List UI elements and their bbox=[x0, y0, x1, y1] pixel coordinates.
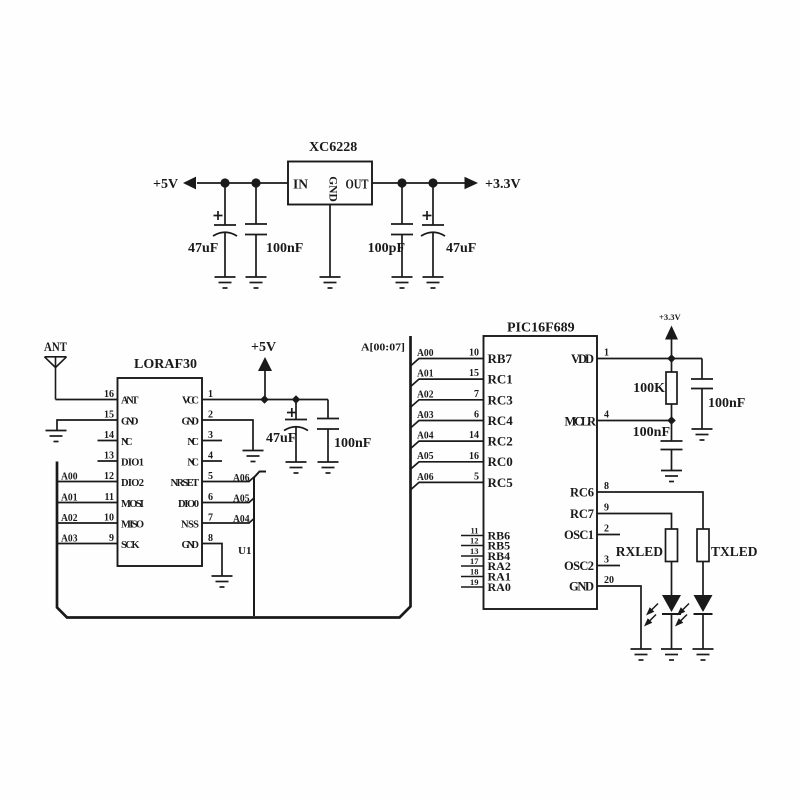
svg-text:TXLED: TXLED bbox=[711, 544, 758, 559]
PIC left pin numbers bbox=[469, 348, 479, 483]
svg-text:2: 2 bbox=[208, 410, 213, 421]
svg-text:15: 15 bbox=[104, 410, 114, 421]
svg-text:100K: 100K bbox=[633, 381, 665, 396]
svg-text:A01: A01 bbox=[417, 369, 434, 380]
wire pin8 GND to ground bbox=[202, 544, 222, 576]
svg-text:100nF: 100nF bbox=[633, 425, 670, 440]
svg-text:OUT: OUT bbox=[346, 177, 369, 192]
wire +5V rail left bbox=[197, 182, 288, 184]
node junction +5V bbox=[260, 395, 269, 404]
LORA right pin numbers bbox=[208, 389, 213, 544]
capacitor C8 100nF mclr bbox=[661, 421, 683, 471]
wire A02 to pin10 bbox=[57, 522, 118, 524]
svg-text:GND: GND bbox=[327, 176, 339, 202]
svg-text:9: 9 bbox=[109, 533, 114, 544]
capacitor C3 100pF bbox=[391, 183, 413, 277]
svg-text:A00: A00 bbox=[61, 472, 78, 483]
ground under pin8 bbox=[212, 576, 233, 587]
wire +3.3V rail right bbox=[372, 182, 465, 184]
wire antenna to pin16 bbox=[56, 399, 118, 401]
wire R3 to LED D2 bbox=[702, 562, 704, 596]
svg-text:RC1: RC1 bbox=[488, 372, 513, 387]
capacitor C1 47uF polarized bbox=[213, 183, 237, 277]
svg-text:+5V: +5V bbox=[153, 177, 178, 192]
wire A03 to RC4 bbox=[411, 421, 484, 429]
svg-text:A03: A03 bbox=[417, 410, 434, 421]
svg-text:ANT: ANT bbox=[44, 339, 67, 354]
svg-text:6: 6 bbox=[474, 410, 479, 421]
svg-text:4: 4 bbox=[604, 410, 609, 421]
wire VDD rail bbox=[597, 358, 702, 360]
wire pin15 GND to ground bbox=[57, 420, 118, 430]
ground under C6 bbox=[318, 462, 339, 473]
svg-text:MCLR: MCLR bbox=[565, 415, 597, 429]
wire GND pin20 to ground bbox=[597, 586, 641, 649]
svg-text:RC5: RC5 bbox=[488, 475, 514, 490]
svg-text:VDD: VDD bbox=[571, 352, 594, 366]
wire RB5 stub bbox=[461, 545, 484, 547]
svg-text:100pF: 100pF bbox=[368, 241, 405, 256]
svg-text:100nF: 100nF bbox=[266, 241, 303, 256]
svg-text:12: 12 bbox=[104, 471, 114, 482]
wire A01 to RC1 bbox=[411, 379, 484, 387]
node junction C3 bbox=[397, 178, 406, 187]
LED D2 arrows bbox=[677, 604, 690, 626]
node junction C1 bbox=[220, 178, 229, 187]
svg-text:U1: U1 bbox=[238, 545, 251, 557]
svg-text:RC6: RC6 bbox=[570, 486, 594, 500]
svg-text:GND: GND bbox=[121, 416, 139, 427]
PIC right pin names bbox=[564, 352, 597, 594]
svg-text:8: 8 bbox=[604, 481, 609, 492]
svg-text:A01: A01 bbox=[61, 493, 78, 504]
ground under pin2 bbox=[243, 451, 264, 462]
wire A00 to RB7 bbox=[411, 359, 484, 367]
svg-text:15: 15 bbox=[469, 368, 479, 379]
+5V arrow left bbox=[183, 177, 196, 190]
capacitor C7 100nF vdd bbox=[691, 359, 713, 429]
svg-text:47uF: 47uF bbox=[188, 241, 218, 256]
svg-text:2: 2 bbox=[604, 524, 609, 535]
svg-text:A05: A05 bbox=[417, 451, 434, 462]
LORA left pin names bbox=[121, 396, 144, 552]
svg-text:LORAF30: LORAF30 bbox=[134, 357, 197, 372]
node junction C5 bbox=[292, 395, 301, 404]
svg-text:A06: A06 bbox=[233, 473, 250, 484]
wire A03 to pin9 bbox=[57, 543, 118, 545]
wire MCLR bbox=[597, 420, 672, 422]
wire pin4 NC stub bbox=[202, 460, 222, 462]
svg-text:A02: A02 bbox=[61, 513, 78, 524]
wire pin14 NC stub bbox=[98, 440, 118, 442]
LED D1 rx bbox=[662, 595, 681, 649]
wire pin2 GND to ground bbox=[202, 420, 253, 450]
svg-text:XC6228: XC6228 bbox=[309, 140, 357, 155]
+3.3V arrow right bbox=[465, 177, 479, 190]
wire pin5 NRSET to A06 net bbox=[202, 477, 254, 482]
svg-text:14: 14 bbox=[469, 430, 479, 441]
svg-text:DIO0: DIO0 bbox=[178, 499, 199, 510]
svg-text:3: 3 bbox=[604, 555, 609, 566]
svg-text:IN: IN bbox=[293, 177, 308, 192]
regulator U2 XC6228 box bbox=[288, 162, 372, 205]
wire RA1 stub bbox=[461, 576, 484, 578]
PIC bottom-left pin numbers bbox=[470, 526, 479, 588]
svg-text:RC7: RC7 bbox=[570, 507, 594, 521]
svg-text:+5V: +5V bbox=[251, 340, 276, 355]
wire pin7 NSS to A04 net bbox=[202, 519, 254, 524]
ground under C5 bbox=[286, 462, 307, 473]
resistor R2 RXLED bbox=[666, 529, 678, 562]
wire RA0 stub bbox=[461, 586, 484, 588]
svg-text:RC0: RC0 bbox=[488, 454, 513, 469]
svg-text:14: 14 bbox=[104, 430, 114, 441]
svg-text:16: 16 bbox=[104, 389, 114, 400]
svg-text:A[00:07]: A[00:07] bbox=[361, 342, 405, 354]
svg-text:19: 19 bbox=[470, 577, 479, 587]
ground under C4 bbox=[423, 277, 444, 288]
svg-text:GND: GND bbox=[182, 416, 200, 427]
svg-text:3: 3 bbox=[208, 430, 213, 441]
PIC left pin names bbox=[488, 351, 514, 490]
wire regulator GND down bbox=[329, 205, 331, 278]
wire RB6 stub bbox=[461, 535, 484, 537]
svg-text:47uF: 47uF bbox=[266, 431, 296, 446]
svg-text:NC: NC bbox=[187, 458, 199, 469]
wire vertical net to bottom bus with hook bbox=[254, 472, 266, 617]
svg-text:+3.3V: +3.3V bbox=[485, 177, 521, 192]
wire arrow to VDD bbox=[671, 340, 673, 359]
svg-text:SCK: SCK bbox=[121, 540, 140, 551]
svg-text:A02: A02 bbox=[417, 389, 434, 400]
capacitor C4 47uF polarized bbox=[421, 183, 445, 277]
svg-text:A05: A05 bbox=[233, 494, 250, 505]
PIC right pin numbers bbox=[604, 348, 614, 587]
wire A00 to pin12 bbox=[57, 481, 118, 483]
svg-text:4: 4 bbox=[208, 451, 213, 462]
svg-text:9: 9 bbox=[604, 503, 609, 514]
svg-text:OSC2: OSC2 bbox=[564, 559, 594, 573]
svg-text:RB7: RB7 bbox=[488, 351, 513, 366]
svg-text:NSS: NSS bbox=[181, 520, 199, 531]
svg-text:11: 11 bbox=[470, 526, 478, 536]
svg-text:MOSI: MOSI bbox=[121, 499, 144, 510]
svg-text:NC: NC bbox=[187, 437, 199, 448]
wire OSC2 stub bbox=[597, 565, 620, 567]
wire A06 to RC5 bbox=[411, 482, 484, 490]
IC U1 LORAF30 box bbox=[118, 378, 203, 566]
node junction C2 bbox=[251, 178, 260, 187]
svg-text:100nF: 100nF bbox=[708, 396, 745, 411]
wire A01 to pin11 bbox=[57, 502, 118, 504]
LED D1 arrows bbox=[646, 604, 659, 626]
svg-text:16: 16 bbox=[469, 451, 479, 462]
svg-text:1: 1 bbox=[604, 348, 609, 359]
svg-text:A00: A00 bbox=[417, 348, 434, 359]
svg-text:RA0: RA0 bbox=[488, 580, 511, 594]
node junction VDD bbox=[667, 354, 676, 363]
svg-text:17: 17 bbox=[470, 556, 479, 566]
bus entry wires to PIC left pins bbox=[411, 359, 484, 490]
svg-text:A04: A04 bbox=[233, 514, 250, 525]
svg-text:1: 1 bbox=[208, 389, 213, 400]
svg-text:12: 12 bbox=[470, 536, 479, 546]
svg-text:RXLED: RXLED bbox=[616, 544, 664, 559]
ground under pin15 bbox=[46, 431, 67, 442]
wire A05 to RC0 bbox=[411, 462, 484, 469]
LED D2 tx bbox=[694, 595, 713, 649]
node junction C4 bbox=[428, 178, 437, 187]
power arrow +5V lora bbox=[258, 357, 272, 371]
svg-text:PIC16F689: PIC16F689 bbox=[507, 321, 575, 336]
svg-text:GND: GND bbox=[569, 580, 594, 594]
ground under C1 bbox=[215, 277, 236, 288]
ground under D1 bbox=[661, 649, 682, 660]
svg-text:8: 8 bbox=[208, 533, 213, 544]
wire R2 to LED D1 bbox=[671, 562, 673, 596]
svg-text:47uF: 47uF bbox=[446, 241, 476, 256]
svg-text:NRSET: NRSET bbox=[171, 478, 200, 489]
capacitor C5 47uF polarized bbox=[284, 400, 308, 463]
svg-text:GND: GND bbox=[182, 540, 200, 551]
wire RA2 stub bbox=[461, 565, 484, 567]
node junction MCLR bbox=[667, 416, 676, 425]
antenna symbol bbox=[45, 357, 67, 400]
ground under C2 bbox=[246, 277, 267, 288]
svg-text:5: 5 bbox=[208, 471, 213, 482]
svg-text:DIO2: DIO2 bbox=[121, 478, 144, 489]
svg-text:A06: A06 bbox=[417, 472, 434, 483]
svg-text:11: 11 bbox=[105, 492, 114, 503]
wire +5V arrow to rail bbox=[264, 371, 266, 400]
wire pin1 VCC rail bbox=[202, 399, 328, 401]
svg-text:6: 6 bbox=[208, 492, 213, 503]
capacitor C2 100nF bbox=[245, 183, 267, 277]
resistor R1 100K bbox=[666, 359, 677, 421]
wire pin13 DIO1 stub bbox=[98, 460, 118, 462]
capacitor C6 100nF bbox=[317, 400, 339, 463]
LORA left pin numbers bbox=[104, 389, 114, 544]
ground under C7 bbox=[692, 429, 713, 440]
svg-text:NC: NC bbox=[121, 437, 133, 448]
svg-text:RC2: RC2 bbox=[488, 434, 513, 449]
wire RC6 to TXLED bbox=[597, 492, 703, 529]
wire pin3 NC stub bbox=[202, 440, 222, 442]
svg-text:10: 10 bbox=[469, 348, 479, 359]
svg-text:RC4: RC4 bbox=[488, 413, 514, 428]
svg-text:ANT: ANT bbox=[121, 396, 139, 407]
power arrow +3.3V pic bbox=[665, 326, 678, 340]
ground under C8 bbox=[661, 471, 682, 482]
svg-text:7: 7 bbox=[474, 389, 479, 400]
svg-text:RC3: RC3 bbox=[488, 392, 514, 407]
svg-text:VCC: VCC bbox=[182, 396, 199, 407]
svg-text:+3.3V: +3.3V bbox=[659, 312, 681, 322]
PIC bottom-left stubs bbox=[461, 536, 484, 588]
ground under pin20 bbox=[631, 649, 652, 660]
svg-text:13: 13 bbox=[470, 546, 479, 556]
wire A04 to RC2 bbox=[411, 441, 484, 449]
svg-text:18: 18 bbox=[470, 567, 479, 577]
ground under C3 bbox=[392, 277, 413, 288]
wire pin6 DIO0 to A05 net bbox=[202, 498, 254, 503]
ground under D2 bbox=[693, 649, 714, 660]
svg-text:10: 10 bbox=[104, 513, 114, 524]
svg-text:7: 7 bbox=[208, 513, 213, 524]
wire RC7 to RXLED bbox=[597, 514, 672, 530]
resistor R3 TXLED bbox=[697, 529, 709, 562]
svg-text:MISO: MISO bbox=[121, 520, 144, 531]
svg-text:20: 20 bbox=[604, 575, 614, 586]
wire OSC1 stub bbox=[597, 534, 620, 536]
svg-text:100nF: 100nF bbox=[334, 436, 371, 451]
PIC bottom-left pin names bbox=[488, 529, 511, 595]
wire A02 to RC3 bbox=[411, 400, 484, 408]
svg-text:DIO1: DIO1 bbox=[121, 458, 144, 469]
IC U3 PIC16F689 box bbox=[484, 336, 598, 609]
svg-text:OSC1: OSC1 bbox=[564, 528, 594, 542]
LORA right pin names bbox=[171, 396, 200, 552]
bus A[00:07] left/bottom/right bbox=[57, 336, 411, 618]
svg-text:5: 5 bbox=[474, 471, 479, 482]
ground under regulator bbox=[320, 277, 341, 288]
svg-text:A04: A04 bbox=[417, 431, 434, 442]
wire RB4 stub bbox=[461, 555, 484, 557]
svg-text:13: 13 bbox=[104, 451, 114, 462]
svg-text:A03: A03 bbox=[61, 534, 78, 545]
